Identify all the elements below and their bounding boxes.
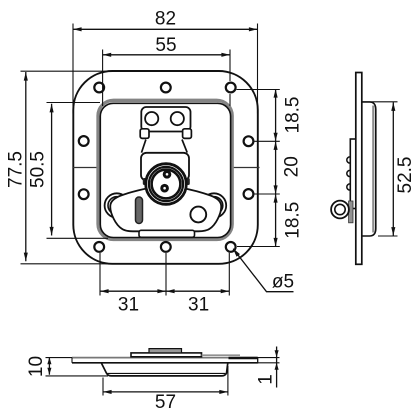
svg-text:1: 1 [256, 374, 277, 385]
svg-text:10: 10 [26, 356, 47, 377]
svg-text:57: 57 [155, 392, 176, 413]
svg-text:55: 55 [155, 35, 176, 56]
svg-text:31: 31 [188, 294, 209, 315]
svg-text:82: 82 [155, 8, 176, 29]
svg-text:ø5: ø5 [272, 272, 294, 293]
svg-text:50.5: 50.5 [28, 151, 49, 188]
svg-text:31: 31 [118, 294, 139, 315]
svg-text:52.5: 52.5 [395, 157, 416, 194]
svg-text:18.5: 18.5 [283, 202, 304, 239]
svg-text:20: 20 [282, 156, 303, 177]
svg-text:77.5: 77.5 [5, 151, 26, 188]
svg-text:18.5: 18.5 [283, 97, 304, 134]
